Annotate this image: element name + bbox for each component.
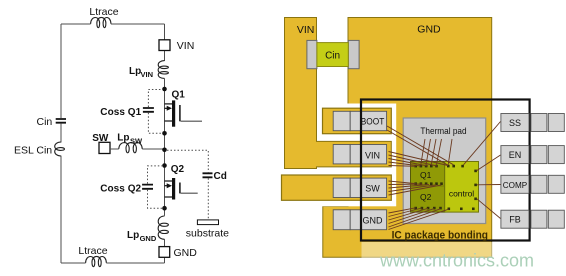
label control die (449, 188, 474, 198)
svg-text:substrate: substrate (186, 227, 229, 239)
label IC package bonding (392, 229, 488, 241)
svg-text:Cin: Cin (325, 50, 340, 61)
pad row SW copper (282, 175, 392, 200)
node dot source Q1 (162, 131, 167, 136)
capacitor Cin left terminal (307, 40, 317, 68)
thermal pad (403, 118, 486, 224)
svg-text:EN: EN (509, 150, 522, 160)
pin box SS (501, 114, 529, 132)
svg-text:Thermal pad: Thermal pad (420, 126, 466, 137)
dotted wire Coss Q2 bottom (148, 190, 163, 208)
svg-text:IC package bonding: IC package bonding (392, 229, 488, 241)
label Q1 die (420, 170, 432, 180)
label Ltrace top (89, 6, 118, 18)
svg-text:SW: SW (130, 136, 143, 145)
svg-text:Ltrace: Ltrace (89, 6, 118, 18)
capacitor Cin body (317, 43, 348, 67)
svg-text:www.cntronics.com: www.cntronics.com (379, 251, 534, 271)
bond wire EN (477, 155, 501, 171)
svg-text:FB: FB (509, 215, 521, 225)
label Cin (37, 116, 53, 128)
transistor Q1 (165, 100, 203, 126)
svg-text:Coss Q2: Coss Q2 (100, 184, 141, 195)
node dot SW junction (162, 148, 167, 153)
svg-text:control: control (449, 188, 474, 198)
svg-text:BOOT: BOOT (361, 116, 385, 126)
svg-text:GND: GND (140, 234, 157, 243)
svg-text:Lp: Lp (129, 66, 141, 77)
terminal box VIN (159, 40, 170, 51)
terminal box SW (99, 142, 110, 153)
svg-text:Coss Q1: Coss Q1 (100, 107, 141, 118)
capacitor Coss Q1 (143, 108, 154, 112)
bond wires GND to die (389, 208, 449, 230)
label Q1 (172, 89, 186, 100)
wire top horizontal (61, 23, 165, 25)
bond wires BOOT to die (387, 126, 454, 165)
svg-text:COMP: COMP (503, 180, 528, 190)
substrate plate (197, 220, 218, 225)
label Coss Q2 (100, 184, 141, 195)
dotted wire Coss Q2 top (148, 166, 163, 184)
svg-text:VIN: VIN (365, 151, 380, 161)
label Cd (214, 171, 227, 182)
die control (445, 162, 479, 213)
wire left vertical (60, 24, 62, 263)
svg-text:Q1: Q1 (172, 89, 186, 100)
svg-text:SW: SW (92, 133, 109, 144)
bond wire SS (464, 122, 501, 165)
svg-text:VIN: VIN (177, 40, 195, 52)
wire main right vertical (164, 24, 166, 263)
label VIN (177, 40, 195, 52)
node dot drain Q1 (162, 87, 167, 92)
svg-text:SW: SW (365, 183, 380, 193)
bond wire FB (477, 199, 501, 219)
svg-text:VIN: VIN (297, 24, 315, 36)
GND copper plane (323, 18, 492, 258)
inductor Lp_GND (158, 216, 168, 239)
pin pads COMP outside (531, 175, 564, 193)
wire SW to coil (110, 148, 165, 150)
dotted wire Coss Q1 top (148, 90, 162, 108)
dotted wire SW to Cd (167, 150, 208, 172)
pad cells BOOT (333, 111, 386, 130)
capacitor Coss Q2 (142, 185, 153, 189)
label substrate (186, 227, 229, 239)
bond wire COMP (477, 184, 501, 186)
svg-text:Ltrace: Ltrace (78, 245, 107, 257)
terminal box GND (159, 247, 170, 258)
die divider Q1/Q2 (411, 185, 445, 187)
inductor Lp_VIN (158, 61, 168, 79)
label Ltrace bottom (78, 245, 107, 257)
pin pads EN outside (531, 146, 564, 164)
pad cells VIN (333, 145, 386, 164)
dotted wire Coss Q1 bottom (148, 113, 162, 134)
inductor ESL Cin (55, 142, 65, 156)
bond pads on dies (414, 165, 477, 210)
svg-text:SS: SS (509, 118, 521, 128)
svg-text:GND: GND (417, 24, 441, 36)
pin box EN (501, 146, 529, 164)
bond wires VIN to die (389, 152, 448, 167)
svg-text:Lp: Lp (117, 133, 129, 144)
svg-text:GND: GND (174, 247, 198, 259)
watermark lighten band (362, 242, 566, 276)
label VIN plane (297, 24, 315, 36)
svg-text:Q1: Q1 (420, 170, 432, 180)
pin box COMP (501, 175, 529, 193)
die Q1 Q2 (411, 162, 445, 213)
svg-text:Q2: Q2 (420, 192, 432, 202)
svg-text:ESL Cin: ESL Cin (14, 145, 52, 157)
svg-text:Cd: Cd (214, 171, 227, 182)
inductor Lp_SW (119, 143, 142, 153)
svg-text:Cin: Cin (37, 116, 53, 128)
pad row BOOT copper (323, 108, 392, 134)
label GND plane (417, 24, 441, 36)
svg-text:GND: GND (363, 216, 384, 226)
pad cells SW (333, 178, 386, 197)
label GND (174, 247, 198, 259)
inductor Ltrace (top) (91, 17, 111, 27)
label Q2 die (420, 192, 432, 202)
IC package outline (361, 100, 530, 241)
pad cells GND (333, 210, 386, 230)
svg-text:Lp: Lp (127, 230, 139, 241)
node dot drain Q2 (162, 163, 167, 168)
svg-text:Q2: Q2 (171, 164, 185, 175)
bond wires SW to die (389, 181, 442, 195)
node dot source Q2 (162, 206, 167, 211)
VIN copper strip (285, 18, 392, 169)
bond wires thermal pad downbonds (421, 139, 452, 165)
label Q2 (171, 164, 185, 175)
label SW (92, 133, 109, 144)
transistor Q2 (165, 178, 198, 200)
label Lp SW (117, 133, 143, 146)
pin pads FB outside (531, 210, 564, 228)
capacitor Cin right terminal (348, 40, 359, 68)
svg-text:VIN: VIN (141, 70, 154, 79)
label Lp VIN (129, 66, 153, 79)
label ESL Cin (14, 145, 52, 157)
label Lp GND (127, 230, 157, 243)
pin box FB (501, 210, 529, 228)
wire bottom horizontal (61, 262, 165, 264)
watermark text (379, 251, 534, 271)
capacitor Cin (56, 119, 66, 123)
label Coss Q1 (100, 107, 141, 118)
capacitor Cd (203, 173, 213, 177)
white clearance around left pad rows (317, 104, 397, 207)
pin pads SS outside (531, 114, 564, 132)
inductor Ltrace (bottom) (86, 256, 107, 266)
dotted wire Cd to substrate (207, 178, 209, 220)
label Thermal pad (420, 126, 466, 137)
